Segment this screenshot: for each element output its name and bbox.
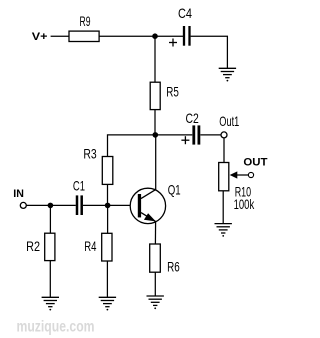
capacitor C1: [73, 177, 85, 215]
svg-text:IN: IN: [13, 188, 24, 200]
resistor R5: [150, 82, 160, 109]
resistor R2: [45, 233, 55, 260]
potentiometer R10: [219, 163, 255, 212]
svg-text:Q1: Q1: [168, 181, 181, 197]
capacitor C4: [169, 5, 192, 47]
wire IN to node C: [26, 204, 50, 206]
svg-text:R6: R6: [167, 259, 180, 275]
svg-text:R2: R2: [26, 238, 40, 254]
resistor R9: [69, 31, 99, 41]
svg-text:100k: 100k: [234, 196, 255, 212]
wire collector to node B: [155, 135, 157, 190]
svg-text:C1: C1: [73, 177, 85, 193]
wire node A down to R5: [154, 36, 156, 82]
terminal IN: [20, 202, 26, 208]
wire node C down to R2: [49, 205, 51, 233]
node C junction: [48, 203, 54, 209]
wire node D down to R4: [107, 205, 109, 233]
wire C4 to ground: [191, 36, 228, 68]
resistor R6: [150, 244, 161, 272]
wire R6 to ground: [154, 272, 156, 296]
ground (R10): [215, 224, 232, 237]
wire R2 to ground: [49, 261, 51, 298]
svg-text:R4: R4: [84, 238, 96, 254]
svg-text:V+: V+: [32, 31, 48, 43]
ground (R2): [42, 297, 59, 310]
svg-text:C2: C2: [186, 110, 199, 126]
transistor Q1: [130, 181, 181, 223]
wire node B left to R3: [108, 135, 156, 157]
wire C2 to Out1 terminal: [200, 134, 221, 136]
svg-text:muzique.com: muzique.com: [17, 319, 95, 336]
wire R5 to node B: [154, 110, 156, 135]
svg-text:Out1: Out1: [219, 113, 239, 129]
svg-text:R3: R3: [83, 145, 96, 161]
svg-text:R9: R9: [80, 13, 91, 29]
wire Out1 down to R10: [223, 138, 225, 163]
ground (R6): [147, 296, 164, 309]
terminal Out1: [221, 132, 227, 138]
wire node A to C4: [155, 35, 183, 37]
svg-text:OUT: OUT: [243, 157, 267, 169]
node B junction: [153, 132, 159, 138]
capacitor C2: [181, 110, 199, 145]
wire R4 to ground: [106, 261, 108, 297]
wire R3 to base node: [107, 184, 109, 205]
svg-text:C4: C4: [178, 5, 192, 21]
ground (R4): [99, 297, 116, 310]
wire R9 to node A: [99, 35, 155, 37]
wire node C to C1: [50, 204, 75, 206]
wire node B right to C2: [155, 134, 192, 136]
wire C1 to node D: [83, 204, 108, 206]
svg-text:R5: R5: [166, 84, 179, 100]
wire V+ to R9: [51, 35, 69, 37]
node D junction: [105, 203, 111, 209]
ground (C4): [219, 68, 236, 81]
resistor R3: [102, 157, 113, 185]
wire R10 to ground: [222, 191, 224, 224]
resistor R4: [102, 233, 112, 261]
wire emitter to R6: [154, 221, 156, 244]
wire node D to base: [108, 204, 138, 206]
node A junction: [152, 33, 158, 39]
